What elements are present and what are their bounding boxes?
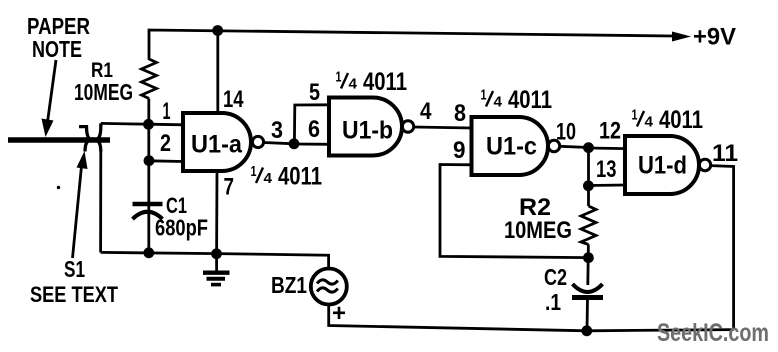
artifact dot: [57, 186, 60, 189]
capacitor C2 curved plate: [573, 284, 603, 292]
svg-text:U1-b: U1-b: [342, 117, 393, 145]
svg-text:1: 1: [336, 69, 342, 86]
svg-text:1: 1: [163, 98, 171, 125]
wire: pin 3: [264, 143, 294, 144]
wire: switch down to bottom rail: [99, 150, 102, 252]
svg-text:5: 5: [309, 79, 320, 106]
wire: pin 11 to bottom rail: [711, 166, 734, 330]
svg-text:+: +: [332, 300, 346, 327]
svg-text:11: 11: [712, 140, 738, 167]
svg-text:1: 1: [632, 107, 638, 124]
node: pin1 junction dot: [143, 119, 154, 130]
wire: pin 14 drop to U1-a: [216, 31, 219, 113]
svg-text:.1: .1: [545, 289, 561, 315]
node: R2/C2 junction dot: [583, 252, 594, 263]
wire: pin 4 to pin 8: [414, 127, 472, 128]
svg-text:12: 12: [599, 118, 621, 145]
svg-text:4: 4: [349, 76, 358, 93]
buzzer BZ1: [311, 269, 347, 305]
svg-text:4: 4: [494, 94, 503, 111]
op-amp U1-b NAND gate: [329, 98, 402, 156]
wire: R2 top: [587, 148, 590, 206]
capacitor C1 curved plate: [133, 212, 163, 219]
U1-c output bubble: [548, 140, 559, 151]
node: pin 3 junction dot: [289, 138, 300, 149]
svg-text:14: 14: [223, 86, 244, 113]
label 1/4 4011 (U1-d): [632, 106, 704, 134]
label 1/4 4011 (U1-c): [481, 86, 553, 114]
svg-text:6: 6: [308, 116, 320, 143]
svg-text:4011: 4011: [659, 106, 703, 134]
svg-text:BZ1: BZ1: [271, 272, 307, 298]
wire: switch to pin 1: [101, 123, 183, 124]
ground: [215, 254, 218, 271]
resistor R2: [581, 206, 596, 245]
switch S1 bottom contact: [85, 139, 101, 152]
wire: pin 2 stub: [149, 159, 183, 162]
node: pin 13 junction dot: [583, 180, 594, 191]
U1-d output bubble: [699, 159, 710, 170]
op-amp U1-d NAND gate: [625, 136, 699, 194]
arrow from PAPER NOTE label: [48, 60, 57, 122]
wire: bottom rail: [329, 305, 734, 331]
svg-text:7: 7: [224, 174, 235, 201]
svg-text:4011: 4011: [278, 163, 322, 191]
node: pin2 junction dot: [144, 155, 155, 166]
svg-text:4011: 4011: [508, 86, 552, 114]
wire: pin 6 stub: [294, 143, 331, 146]
wire: bottom-left rail to BZ1: [101, 252, 329, 268]
wire: pin 10 to junction: [560, 146, 589, 147]
svg-text:10: 10: [556, 119, 576, 146]
svg-text:U1-a: U1-a: [191, 131, 243, 159]
svg-text:NOTE: NOTE: [32, 36, 82, 62]
wire: pin 12 stub: [589, 147, 626, 150]
svg-text:2: 2: [160, 130, 171, 157]
svg-text:SeekIC.com: SeekIC.com: [657, 319, 769, 347]
capacitor C1 top plate: [133, 202, 163, 207]
svg-text:+9V: +9V: [693, 24, 736, 51]
switch S1 top contact: [79, 123, 101, 140]
arrow from S1 label: [73, 166, 82, 258]
paper note line: [8, 137, 110, 143]
op-amp U1-a NAND gate: [183, 113, 251, 171]
node: V+ junction dot: [212, 25, 223, 36]
wire: C2 to bottom rail: [586, 298, 589, 332]
wire: R2 bottom to C2: [586, 245, 589, 286]
svg-text:13: 13: [596, 156, 617, 183]
svg-text:U1-d: U1-d: [638, 152, 687, 180]
svg-text:10MEG: 10MEG: [504, 217, 572, 244]
capacitor C2 bottom plate: [572, 295, 603, 300]
op-amp U1-c NAND gate: [472, 117, 549, 175]
wire: pin 13 stub: [588, 184, 625, 187]
+9V arrowhead: [672, 32, 691, 42]
U1-a output bubble: [252, 136, 263, 147]
wire: feedback to pin 9: [440, 165, 588, 258]
svg-text:S1: S1: [64, 256, 85, 282]
node: pin 12 junction dot: [583, 142, 594, 153]
label 1/4 4011 (U1-b): [336, 68, 408, 96]
svg-text:U1-c: U1-c: [486, 133, 537, 161]
wire: pin 7 drop: [215, 172, 218, 254]
svg-text:680pF: 680pF: [155, 215, 208, 241]
resistor R1: [142, 59, 157, 99]
wire: +9V rail: [149, 30, 672, 60]
svg-text:SEE TEXT: SEE TEXT: [30, 282, 118, 307]
svg-text:9: 9: [453, 137, 466, 164]
svg-text:1: 1: [251, 163, 257, 180]
svg-text:C2: C2: [544, 264, 567, 290]
svg-text:4: 4: [420, 98, 432, 125]
node: C2 bottom junction dot: [581, 325, 592, 336]
svg-text:4011: 4011: [363, 68, 407, 96]
svg-text:3: 3: [271, 117, 283, 144]
svg-text:4: 4: [264, 170, 273, 187]
wire: pin 5/6 tie loop: [294, 105, 330, 144]
node: C1 bottom junction dot: [143, 247, 154, 258]
wire: R1 bottom to bottom rail (through C1): [147, 99, 150, 254]
svg-text:8: 8: [454, 100, 466, 127]
svg-text:10MEG: 10MEG: [74, 79, 133, 105]
svg-text:1: 1: [481, 87, 487, 104]
svg-text:4: 4: [645, 114, 654, 131]
label 1/4 4011 (U1-a): [251, 163, 323, 191]
node: ground junction dot: [211, 248, 222, 259]
U1-b output bubble: [402, 121, 413, 132]
